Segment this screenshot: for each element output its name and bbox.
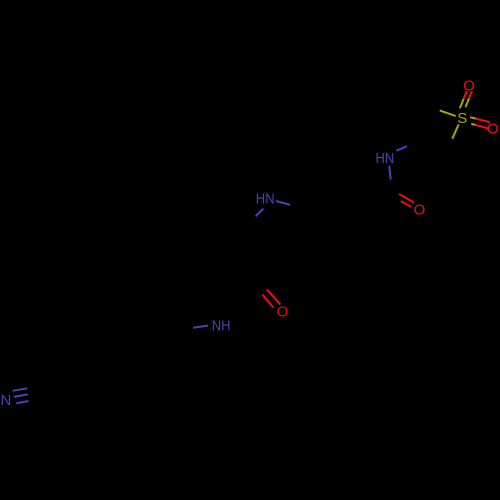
svg-text:O: O [487,120,499,137]
wire N-CH2 half bond up-right [396,146,407,150]
S=O top double bond line 2 olive part [466,98,470,107]
svg-text:O: O [414,202,426,219]
svg-text:N: N [0,392,11,409]
amide C=O double bond line 1 [399,194,414,203]
svg-text:HN: HN [376,150,395,167]
nitrile triple bond line 1 [13,388,28,391]
S=O right double bond line 1 red part [476,119,490,123]
svg-text:NH: NH [212,317,231,334]
S=O top double bond line 1 olive part [460,99,464,109]
amide C=O double bond line 2 [401,201,411,207]
ketone C=O double bond line 2 [262,295,273,308]
wire N-C(=O) half bond down [389,166,391,180]
wire N-C half bond right [276,201,290,205]
wire N-CH2 half bond [193,326,208,328]
ketone C=O double bond line 1 [267,290,280,305]
svg-text:O: O [277,303,289,320]
wire N-C half bond lower-left [256,209,264,217]
svg-text:HN: HN [256,191,275,208]
S=O right double bond line 1 olive part [470,117,476,118]
S=O top double bond line 2 red part [469,91,472,98]
svg-text:O: O [463,77,475,94]
S=O right double bond line 2 red part [475,125,488,128]
S=O right double bond line 2 olive part [471,124,475,125]
nitrile triple bond line 2 [14,394,28,397]
S=O top double bond line 1 red part [464,91,467,99]
wire S-CH2 half bond (olive) [452,124,458,138]
wire S-CH3 half bond (olive) [440,110,456,116]
nitrile triple bond line 3 [16,401,28,403]
